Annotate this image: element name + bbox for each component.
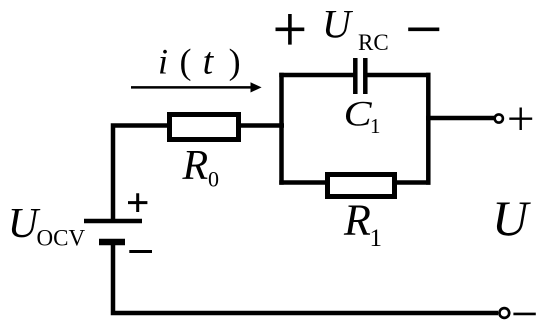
svg-text:C: C [344,94,373,134]
label + at output [509,108,532,131]
label + of U_RC [276,14,305,45]
wire: top-left horizontal + left vertical down to battery [113,126,170,220]
svg-text:R: R [182,143,209,189]
svg-text:(: ( [180,42,192,82]
wire: RC block top-left segment [279,73,353,78]
wire: RC block bottom [279,180,430,185]
wire: output + lead [426,116,495,121]
label + of battery [128,193,147,212]
svg-text:i: i [158,42,168,82]
resistor R0 [170,115,239,140]
resistor R1 [328,175,395,197]
wire: R0 to RC block [238,123,284,128]
svg-text:RC: RC [358,30,389,55]
terminal + (open circle) [495,114,503,122]
svg-text:OCV: OCV [37,226,86,251]
svg-text:1: 1 [370,225,383,252]
wire: RC block left vertical [279,73,284,185]
current arrow i(t) [131,86,252,89]
svg-text:0: 0 [208,167,219,192]
battery U_OCV: long positive plate [84,219,142,224]
wire: RC block right vertical [426,73,431,185]
svg-text:R: R [343,196,371,245]
svg-text:U: U [322,2,354,47]
svg-text:): ) [229,42,241,82]
battery U_OCV: short negative plate [99,239,125,246]
label - of battery [129,250,152,253]
label - of U_RC [408,27,439,31]
svg-text:1: 1 [370,114,381,138]
wire: battery to bottom rail [113,244,498,313]
svg-text:t: t [203,41,215,83]
capacitor C1 [355,58,365,94]
wire: RC block top-right segment [367,73,430,78]
svg-text:U: U [492,190,531,246]
label - at output [513,313,535,316]
terminal - (open circle) [499,308,509,318]
